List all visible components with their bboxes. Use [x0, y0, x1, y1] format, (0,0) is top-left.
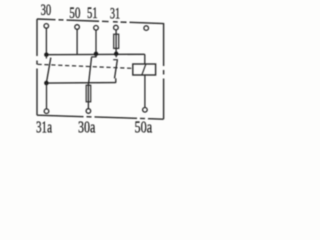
switch B fixed contact stub: [95, 55, 97, 57]
mechanical linkage (dashed): [38, 64, 134, 68]
wire bus to coil (corner down): [144, 54, 146, 64]
riser stub to switch C arm: [115, 78, 117, 83]
fuse F2 wire through (to 30a): [87, 83, 89, 109]
terminal 51 circle: [94, 26, 99, 31]
switch C fixed contact tick: [113, 59, 118, 61]
wire from terminal 30 down: [45, 28, 47, 53]
unused terminal circle (top right): [144, 26, 149, 31]
junction dot B (bus / terminal 51): [94, 52, 99, 57]
relay coil slash: [142, 64, 146, 75]
terminal 50a circle: [143, 108, 148, 113]
svg-text:30: 30: [41, 2, 52, 19]
wire coil bottom to terminal 50a: [144, 75, 146, 107]
svg-text:51: 51: [87, 5, 98, 22]
enclosure left edge (chain line): [36, 19, 38, 115]
fuse F1 rectangle: [114, 34, 119, 48]
relay coil K1 rectangle: [133, 64, 156, 75]
wire lower bus to terminal 31a: [46, 83, 48, 109]
svg-text:50: 50: [69, 5, 80, 22]
switch A fixed contact stub: [45, 56, 47, 59]
enclosure right edge (chain line): [163, 23, 165, 119]
terminal 50 circle: [75, 25, 80, 30]
enclosure top edge (chain line): [37, 19, 164, 24]
switch C movable arm: [115, 60, 118, 78]
svg-text:31: 31: [110, 6, 120, 23]
terminal 30 circle: [44, 24, 49, 29]
wire from terminal 51 down: [95, 30, 97, 53]
terminal 31a circle: [44, 109, 49, 114]
switch B movable arm: [89, 57, 92, 83]
svg-text:30a: 30a: [78, 117, 96, 136]
switch C fixed contact stub: [115, 55, 117, 58]
enclosure bottom edge (chain line): [37, 115, 164, 119]
wire from terminal 50 down: [76, 30, 78, 55]
junction dot C (bus / riser): [114, 52, 119, 57]
junction dot D (lower bus / 31a wire): [44, 81, 49, 86]
fuse F1 (below terminal 31) wire through: [115, 35, 117, 54]
svg-text:50a: 50a: [135, 117, 153, 136]
svg-text:31a: 31a: [36, 117, 52, 136]
fuse F2 rectangle: [86, 85, 91, 102]
terminal 30a circle: [86, 109, 91, 114]
bus wire node 31 (horizontal, upper): [46, 53, 144, 55]
wire terminal 31 to fuse: [115, 30, 117, 35]
switch A movable arm: [47, 58, 51, 83]
bus wire lower (horizontal): [46, 82, 115, 85]
terminal 31 circle: [114, 25, 119, 30]
switch B fixed contact tick: [91, 56, 96, 58]
junction dot A (bus / terminal 30): [44, 52, 49, 57]
